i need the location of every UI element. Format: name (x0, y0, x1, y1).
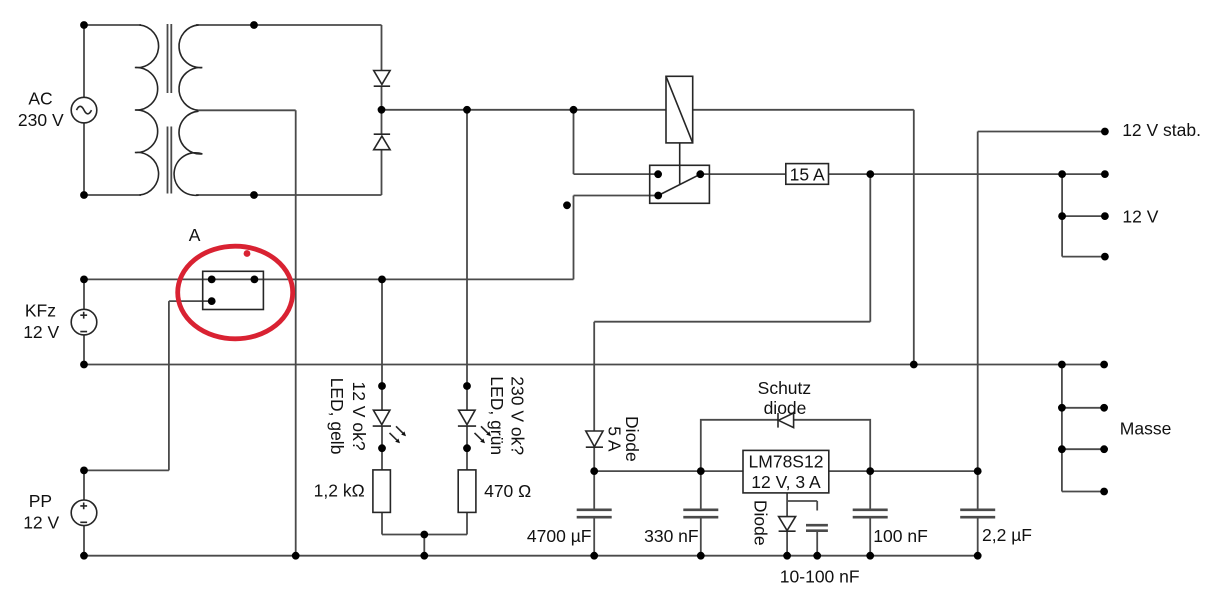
wire C5 bottom (816, 532, 818, 556)
wire center tap horizontal (199, 109, 296, 111)
LED1 gelb (373, 410, 391, 426)
wire KFz source top (83, 279, 85, 309)
node 12V terminal 2 (1101, 212, 1109, 220)
capacitor C5 10-100nF plates (806, 525, 828, 531)
wire Masse stub 2 (1062, 407, 1104, 409)
wire 5A diode anode (593, 322, 595, 431)
wire regulator GND lower (786, 531, 788, 556)
svg-text:10-100 nF: 10-100 nF (780, 567, 860, 587)
svg-text:1,2 kΩ: 1,2 kΩ (314, 480, 365, 500)
node C3 top (866, 467, 874, 475)
node Masse terminal 1 (1100, 361, 1108, 369)
LED1 arrows (390, 426, 407, 443)
node PP plus (80, 467, 88, 475)
wire regulator rail (594, 470, 978, 472)
svg-text:5 A: 5 A (604, 426, 624, 452)
wire Schutzdiode right (794, 420, 871, 471)
wire AC source bottom (83, 123, 85, 195)
node transformer primary bottom (80, 191, 88, 199)
node Masse branch 3 (1058, 445, 1066, 453)
wire LED1 cathode (381, 426, 383, 470)
svg-text:A: A (189, 225, 201, 245)
svg-text:2,2 µF: 2,2 µF (982, 525, 1032, 545)
node D5 ground (783, 552, 791, 560)
svg-text:470 Ω: 470 Ω (484, 481, 531, 501)
node center tap ground (292, 552, 300, 560)
svg-text:230 V: 230 V (18, 110, 64, 130)
node C2 top (697, 467, 705, 475)
wire R2 bottom (466, 512, 468, 534)
node transformer secondary bottom (250, 191, 258, 199)
wire LED1 anode (381, 279, 383, 410)
node KFz minus (80, 361, 88, 369)
diode D5 regulator ground (779, 517, 796, 532)
svg-text:15 A: 15 A (790, 164, 825, 184)
red annotation dot (244, 250, 251, 257)
node PP minus (80, 552, 88, 560)
svg-text:AC: AC (28, 88, 52, 108)
relay coil K1 (666, 76, 693, 143)
label AC 230V (18, 88, 64, 130)
wire Masse stub 1 (1062, 364, 1104, 366)
wire contact NC vertical (573, 196, 575, 280)
wire rectifier output horizontal (382, 109, 667, 111)
node Masse terminal 4 (1100, 488, 1108, 496)
transformer T1 secondary winding lower (174, 111, 202, 195)
wire C1 top (593, 471, 595, 509)
svg-text:12 V stab.: 12 V stab. (1122, 120, 1201, 140)
LED2 arrows (475, 426, 492, 443)
wire C2 bottom (700, 518, 702, 556)
node transformer primary top (80, 21, 88, 29)
node 12V terminal 3 (1101, 253, 1109, 261)
wire 12V stub middle (1062, 215, 1105, 217)
label Diode regulator (751, 500, 771, 546)
wire KFz plus rail (84, 278, 574, 280)
resistor R1 1.2k (373, 470, 391, 513)
label Schutzdiode (758, 378, 812, 418)
wire PP to connector horizontal (84, 469, 169, 471)
transformer T1 core lower (168, 127, 172, 194)
wire Masse bus (1061, 365, 1063, 492)
svg-text:230 V ok?: 230 V ok? (507, 376, 527, 455)
wire 5A diode cathode (593, 447, 595, 471)
node LED2 cathode pin (463, 444, 471, 452)
capacitor C2 330nF plates (683, 510, 718, 517)
wire AC source top (83, 25, 85, 97)
capacitor C3 100nF plates (853, 510, 888, 517)
DC source PP (71, 500, 97, 526)
regulator U1 LM78S12 box (743, 450, 829, 493)
svg-text:LM78S12: LM78S12 (749, 451, 824, 471)
svg-text:12 V: 12 V (23, 322, 59, 342)
wire fuse output rail (700, 173, 1105, 175)
svg-text:Schutz: Schutz (758, 378, 812, 398)
node 12V branch 2 (1058, 212, 1066, 220)
svg-text:4700 µF: 4700 µF (527, 526, 592, 546)
node resistors ground (420, 552, 428, 560)
label KFz 12V (23, 301, 59, 343)
wire resistor join horizontal (382, 534, 467, 536)
wire secondary bottom to diode chain (196, 194, 382, 196)
relay actuator link (679, 143, 681, 184)
node connector pin3 (208, 297, 216, 305)
wire LED2 cathode (466, 426, 468, 470)
node LED1 tap (378, 276, 386, 284)
node C5 ground (813, 552, 821, 560)
node C4 ground (974, 552, 982, 560)
LED2 gruen (458, 410, 476, 426)
capacitor C4 2.2uF plates (960, 510, 995, 517)
wire Masse stub 3 (1062, 448, 1104, 450)
node rectifier output (378, 106, 386, 114)
node C1 ground (590, 552, 598, 560)
wire regulator GND upper (786, 493, 788, 517)
node contact NO (654, 170, 662, 178)
wire to 5A diode horizontal (594, 321, 870, 323)
transformer T1 secondary winding upper (179, 25, 202, 110)
wire C4 top (977, 471, 979, 509)
wire fuse node down (869, 174, 871, 322)
wire C5 top (816, 501, 818, 511)
diode D2 rectifier bottom (374, 134, 390, 150)
wire ground rail bottom (84, 555, 978, 557)
node resistor join (420, 531, 428, 539)
wire 12V stab vertical (977, 132, 979, 472)
wire center tap vertical to ground rail (295, 110, 297, 555)
wire 12V stub lower (1062, 256, 1105, 258)
wire PP source top (83, 470, 85, 500)
wire Masse rail (84, 364, 1062, 366)
svg-text:330 nF: 330 nF (644, 526, 698, 546)
svg-text:KFz: KFz (25, 301, 56, 321)
node C3 ground (866, 552, 874, 560)
wire C5 branch horizontal (787, 500, 817, 502)
svg-text:12 V: 12 V (1122, 206, 1158, 226)
wire primary top stub (84, 24, 141, 26)
node LED1 anode pin (378, 382, 386, 390)
svg-text:12 V ok?: 12 V ok? (349, 381, 369, 450)
node 12V stab terminal (1101, 128, 1109, 136)
wire C4 bottom (977, 518, 979, 556)
node KFz plus (80, 276, 88, 284)
node Masse terminal 2 (1100, 404, 1108, 412)
svg-text:100 nF: 100 nF (873, 526, 927, 546)
node fuse output (866, 170, 874, 178)
svg-text:12 V, 3 A: 12 V, 3 A (751, 472, 821, 492)
wire Schutzdiode left (701, 420, 778, 471)
node Masse branch 2 (1058, 404, 1066, 412)
wire to contact NO horizontal (574, 173, 659, 175)
transformer T1 core upper (168, 24, 172, 93)
capacitor C1 4700uF plates (577, 510, 612, 517)
label PP 12V (23, 491, 59, 533)
resistor R2 470 (458, 470, 476, 513)
wire secondary top to diode chain (196, 24, 382, 26)
label LM78S12 (749, 451, 824, 492)
node relay feed (570, 106, 578, 114)
node contact common (696, 170, 704, 178)
red annotation ellipse (178, 246, 293, 339)
svg-text:12 V: 12 V (23, 513, 59, 533)
wire PP source bottom (83, 526, 85, 556)
wire primary bottom stub (84, 194, 141, 196)
AC source V1 (71, 97, 97, 123)
wire Masse stub 4 (1062, 491, 1104, 493)
DC source KFz (71, 309, 97, 335)
relay contact arm (658, 174, 700, 195)
svg-text:LED, gelb: LED, gelb (327, 378, 347, 455)
fuse F1 box (786, 164, 829, 185)
wire join to ground (423, 535, 425, 556)
label Diode 5A (604, 416, 642, 462)
node LED2 anode pin (463, 382, 471, 390)
wire contact NC horizontal (574, 195, 659, 197)
node LED1 cathode pin (378, 444, 386, 452)
node Masse terminal 3 (1100, 445, 1108, 453)
node connector pin1 (208, 276, 216, 284)
node LED2 tap (463, 106, 471, 114)
wire diode chain middle (381, 86, 383, 134)
wire PP to connector vertical (168, 301, 170, 470)
node Masse rail end (1058, 361, 1066, 369)
svg-text:PP: PP (29, 491, 52, 511)
transformer T1 primary winding (135, 25, 159, 195)
wire node to contact NO vertical (573, 110, 575, 174)
wire 12V stab horizontal (978, 131, 1105, 133)
wire C3 bottom (869, 518, 871, 556)
node contact NC (654, 192, 662, 200)
node transformer secondary top (250, 21, 258, 29)
wire R1 bottom (381, 512, 383, 534)
node C2 ground (697, 552, 705, 560)
node stray (563, 201, 571, 209)
diode D1 rectifier top (374, 71, 390, 87)
wire LED2 anode (466, 110, 468, 410)
wire C2 top (700, 471, 702, 509)
node regulator input (590, 467, 598, 475)
svg-text:Diode: Diode (751, 500, 771, 546)
wire C1 bottom (593, 518, 595, 556)
svg-text:LED, grün: LED, grün (487, 376, 507, 455)
svg-text:Masse: Masse (1120, 419, 1172, 439)
node 12V terminal 1 (1101, 170, 1109, 178)
wire connector pin3 (169, 300, 212, 302)
diode D3 5A (586, 431, 603, 447)
connector A box (203, 271, 264, 309)
label LED2 230V ok gruen (487, 376, 527, 455)
wire diode chain top (381, 25, 383, 71)
wire coil return vertical (913, 110, 915, 365)
label LED1 12V ok gelb (327, 378, 369, 455)
wire 12V output bus (1061, 174, 1063, 257)
wire diode chain bottom (381, 150, 383, 195)
node 12V branch (1058, 170, 1066, 178)
svg-text:diode: diode (764, 398, 807, 418)
diode D4 Schutzdiode (778, 413, 794, 428)
wire relay coil to corner (693, 109, 914, 111)
node coil return (910, 361, 918, 369)
node connector pin2 (251, 276, 259, 284)
node C4 top (974, 467, 982, 475)
relay contact box (650, 165, 710, 203)
wire KFz source bottom (83, 335, 85, 365)
wire C3 top (869, 471, 871, 509)
